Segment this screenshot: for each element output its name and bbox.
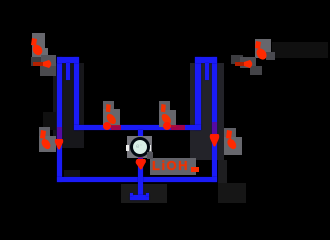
wire: left tube cap <box>57 57 79 63</box>
red flow head on right wire (down) <box>209 134 220 147</box>
red gas arrow top-right (comma down-right) <box>255 41 269 61</box>
red node dot mid-right on wire <box>163 122 171 130</box>
wire: center stub bottom (battery to ground) <box>138 157 143 196</box>
red flow arrow into left tube (right) <box>33 62 46 66</box>
ground backdrop <box>121 184 167 203</box>
red shaft on middle wire left <box>111 125 121 130</box>
battery terminal dash left <box>126 145 129 151</box>
ground bar <box>130 195 149 200</box>
wire: right outer electrode leg <box>212 57 217 182</box>
wire: center stub top (to battery) <box>138 130 143 137</box>
red gas arrow top-left (comma down-right) <box>31 38 45 57</box>
red flow shaft on left wire <box>57 127 62 140</box>
battery backdrop <box>127 136 152 158</box>
red e- arrow side-left <box>40 130 54 152</box>
beaker glass left (faint) <box>53 63 84 148</box>
electrode stub left tube <box>66 63 70 80</box>
wire: right inner electrode leg <box>195 57 201 130</box>
electrode stub right tube <box>205 63 209 80</box>
wire: left inner electrode leg <box>74 57 79 130</box>
label box top-left O2 <box>32 33 45 57</box>
battery terminal dash right <box>148 145 151 151</box>
label box e- side-right <box>224 128 236 140</box>
label box e- mid-left <box>103 101 114 112</box>
red flow arrow right-top (right) <box>235 62 247 66</box>
red e- arrow side-right <box>225 130 239 152</box>
label box e- side-left <box>39 127 50 138</box>
wire: bottom horizontal <box>57 177 217 182</box>
red e- arrow mid-left (down to wire) <box>104 103 118 126</box>
electrolyte label backdrop <box>150 158 196 175</box>
red shaft on middle wire right <box>171 125 185 130</box>
faint dark below bottom wire right <box>218 183 246 203</box>
label box e- mid-right <box>159 101 170 113</box>
faint dark left of left wire <box>43 112 56 130</box>
beaker glass right (faint) <box>190 63 224 160</box>
faint dark right of bottom-right wire <box>218 160 227 196</box>
ground bar tip right <box>146 193 149 196</box>
battery U1 <box>130 137 150 157</box>
wire: left outer electrode leg <box>57 57 62 182</box>
wire: middle horizontal <box>74 125 201 130</box>
electrolyte label tail <box>191 167 199 172</box>
red e- arrow mid-right (down to wire) <box>159 103 173 126</box>
electrolyte label LiOH <box>152 158 200 176</box>
battery label <box>136 143 146 151</box>
faint dark right of bottom-left corner <box>64 170 80 180</box>
wire: right tube cap <box>195 57 217 63</box>
label box top-right H2 <box>255 39 271 58</box>
red flow head on left wire (down) <box>54 139 64 150</box>
red node dot mid-left on wire <box>103 122 111 130</box>
red flow shaft on right wire <box>212 122 217 138</box>
red flow head below battery (down) <box>138 157 143 162</box>
faint dark label right of top-right arrow <box>272 42 328 58</box>
ground bar tip left <box>130 193 133 196</box>
